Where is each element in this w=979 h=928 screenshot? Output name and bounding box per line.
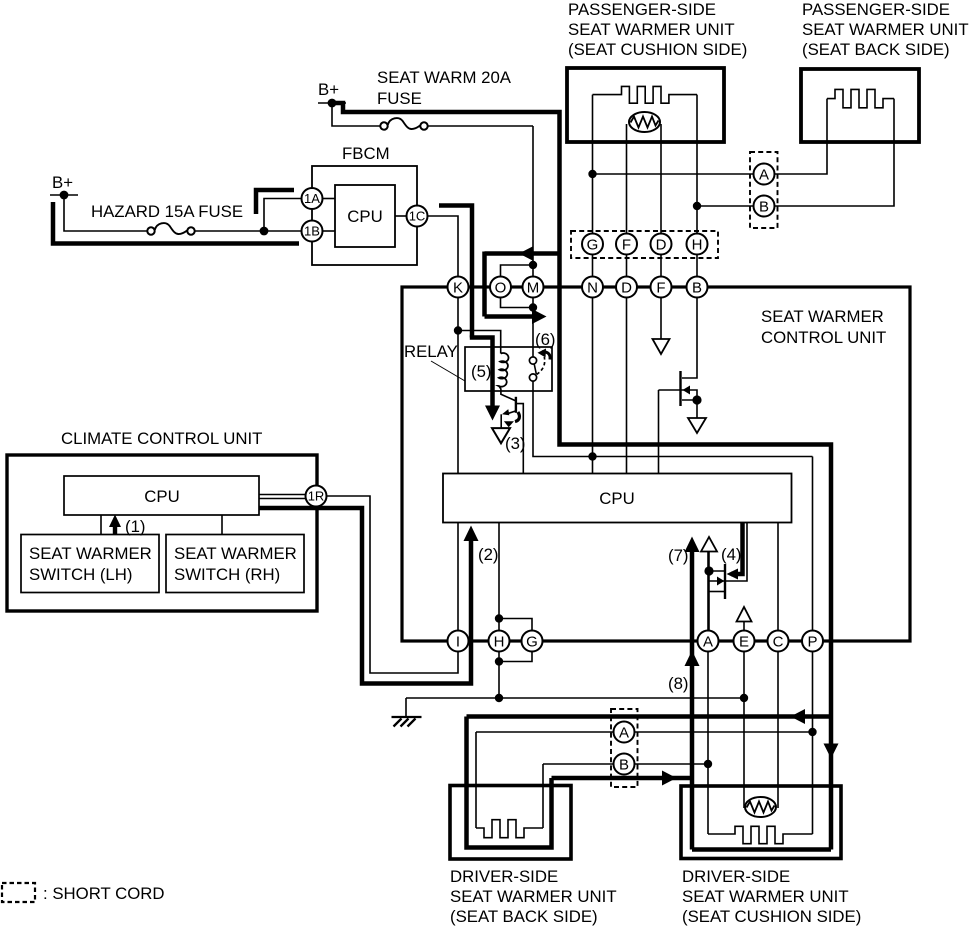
heater element driver cushion [708, 826, 813, 843]
svg-text:CLIMATE CONTROL UNIT: CLIMATE CONTROL UNIT [61, 429, 262, 448]
transistor Q2 stem below triangle [708, 552, 710, 631]
svg-text:: SHORT CORD: : SHORT CORD [43, 884, 165, 903]
svg-text:FUSE: FUSE [377, 89, 422, 108]
fuse HAZARD 15A [147, 227, 154, 234]
wire P column down to terminal P [812, 457, 814, 631]
svg-text:PASSENGER-SIDE: PASSENGER-SIDE [802, 0, 950, 19]
seat warmer switch LH box [21, 535, 159, 593]
arrow open triangle above terminal E [737, 607, 752, 622]
wire FBCM 1A lead [323, 198, 336, 200]
wire terminal D to CPU [626, 298, 628, 474]
thermistor passenger cushion [629, 112, 660, 132]
connector F [616, 234, 637, 255]
fuse SEAT WARM 20A [380, 122, 387, 129]
terminal I [448, 631, 469, 652]
wire thick relay loop top segment [485, 251, 558, 256]
svg-text:(2): (2) [478, 545, 499, 564]
svg-text:B: B [692, 280, 702, 297]
wire short cord A (bottom) left [476, 731, 614, 733]
svg-text:D: D [656, 237, 667, 254]
wire transistor Q2 drain branch [708, 570, 725, 572]
transistor Q3 emitter with arrow [507, 411, 516, 414]
wire thick relay coil drive jog [470, 338, 493, 408]
wire thick driver seat feed (7)/(8) [690, 551, 695, 850]
svg-text:1B: 1B [304, 224, 320, 239]
wire thick relay loop left segment [482, 252, 487, 317]
svg-text:(1): (1) [125, 517, 146, 536]
wire terminal H to ground [498, 652, 500, 699]
terminal K [448, 277, 469, 298]
svg-text:F: F [656, 280, 665, 297]
svg-text:SWITCH (LH): SWITCH (LH) [29, 565, 132, 584]
terminal 1C [407, 206, 428, 227]
svg-text:CONTROL UNIT: CONTROL UNIT [761, 328, 886, 347]
wire thermistor lead D column [660, 124, 662, 234]
svg-text:B+: B+ [52, 173, 73, 192]
svg-text:CPU: CPU [347, 207, 382, 226]
wire terminal H to CPU [498, 523, 500, 631]
arrowhead relay loop bottom (right) [532, 309, 547, 324]
terminal 1B [302, 221, 323, 242]
wire B+ to SEAT WARM fuse [332, 103, 380, 126]
wire short cord A to G column (passenger) [593, 173, 754, 175]
wire heater lead G column (passenger cushion) [592, 95, 594, 234]
node dot N relay output [588, 452, 596, 460]
wire node O top loop [501, 265, 534, 276]
svg-text:K: K [453, 280, 463, 297]
svg-text:(SEAT BACK SIDE): (SEAT BACK SIDE) [450, 907, 598, 926]
svg-text:(8): (8) [668, 674, 689, 693]
svg-text:G: G [587, 237, 599, 254]
svg-text:FBCM: FBCM [342, 144, 390, 163]
relay switch throw arc (dashed) [537, 357, 545, 375]
wire relay coil feed from K node [458, 331, 501, 354]
wire climate CPU to 1R (upper) [259, 494, 306, 496]
node dot H-G upper [495, 614, 503, 622]
wire connector G to terminal N [592, 255, 594, 277]
short cord B (passenger) [754, 196, 775, 217]
svg-text:I: I [456, 634, 460, 651]
wire terminal A to transistor Q2 [707, 552, 709, 631]
ground symbol chassis [392, 716, 422, 718]
node dot ground H [495, 694, 503, 702]
wire short cord B (bottom) left [543, 763, 614, 765]
svg-text:H: H [494, 634, 505, 651]
relay switch contact lower [529, 374, 536, 381]
node dot M column upper [529, 261, 537, 269]
terminal N [582, 277, 603, 298]
wire terminal C to CPU [777, 523, 779, 631]
svg-text:M: M [527, 280, 540, 297]
arrow open triangle above transistor Q2 [701, 537, 717, 552]
wire thick driver cushion inner loop bottom [692, 847, 831, 852]
wire connector F to terminal D [626, 255, 628, 277]
svg-text:SEAT WARM 20A: SEAT WARM 20A [377, 68, 512, 87]
wire M column: fuse down to relay contact [532, 126, 534, 357]
thermistor passenger cushion leads handled by columns [53, 103, 831, 850]
node dot H column short cord B [693, 202, 701, 210]
wire connector H to terminal B [696, 255, 698, 277]
transistor Q1 gate arrowhead [683, 386, 691, 395]
svg-text:1C: 1C [409, 209, 426, 224]
node dot hazard 1A/1B branch [260, 227, 269, 236]
arrowhead relay loop top (left) [519, 246, 534, 261]
arrowhead (1) climate switch [109, 515, 121, 528]
svg-text:A: A [619, 725, 629, 742]
terminal B (top row) [687, 277, 708, 298]
wire transistor Q1 gate column down [658, 390, 660, 474]
svg-text:B+: B+ [318, 80, 339, 99]
short cord connector box G F D H [571, 231, 718, 258]
wire B+ to HAZARD fuse [64, 195, 147, 231]
heater element passenger back [827, 89, 894, 107]
heater element passenger cushion [593, 86, 698, 103]
svg-text:B: B [759, 199, 769, 216]
battery B+ terminal (hazard fuse) [50, 194, 78, 196]
node dot K column coil branch [454, 326, 462, 334]
svg-text:(4): (4) [721, 545, 742, 564]
arrowhead (8) [685, 651, 700, 667]
passenger back seat warmer unit box [801, 69, 919, 142]
legend short cord box [2, 883, 35, 902]
transistor Q2 channel bar [724, 564, 726, 599]
short cord A (passenger) [754, 164, 775, 185]
wire branch to FBCM 1A [264, 199, 302, 232]
wire terminal N column to CPU [592, 298, 594, 474]
wire terminal I to 1R [327, 496, 459, 673]
wire connector D to terminal F [660, 255, 662, 277]
wire thick B+ seat warm feed (battery to fuse top) [334, 103, 831, 850]
svg-text:(7): (7) [668, 546, 689, 565]
wire thick driver back to cushion link [552, 776, 693, 781]
svg-text:DRIVER-SIDE: DRIVER-SIDE [682, 867, 790, 886]
wire thick driver back inner loop [467, 717, 552, 848]
wire short cord B to back heater [775, 99, 895, 206]
svg-text:C: C [773, 634, 784, 651]
climate CPU box [64, 476, 259, 515]
node dot B+ seat warm [328, 99, 337, 108]
arrowhead relay drive down [485, 406, 500, 421]
terminal M [523, 277, 544, 298]
svg-text:1A: 1A [304, 191, 320, 206]
wire transistor Q2 source branch [709, 591, 725, 593]
wire FBCM 1C lead [395, 215, 407, 217]
wire transistor Q2 gate from CPU [709, 523, 747, 582]
wire thick 1C relay feed [439, 206, 472, 338]
wire driver back heater lead A [475, 732, 477, 828]
terminal O [490, 277, 511, 298]
arrow open triangle below terminal F [653, 339, 670, 354]
terminal D (top row) [616, 277, 637, 298]
svg-text:SWITCH (RH): SWITCH (RH) [174, 565, 280, 584]
wire thick relay loop bottom segment [485, 314, 539, 319]
svg-text:H: H [692, 237, 703, 254]
relay switch actuation curved arrow (6) [542, 352, 550, 360]
terminal G (bottom row) [522, 631, 543, 652]
transistor Q3 emitter to ground [500, 414, 502, 427]
wire thermistor lead F column [626, 124, 628, 234]
wire node O bottom loop [501, 298, 534, 308]
wire seat warmer switch RH lead [221, 515, 223, 535]
svg-text:(SEAT CUSHION SIDE): (SEAT CUSHION SIDE) [568, 40, 747, 59]
wire short cord B to H column (passenger) [697, 205, 754, 207]
wire terminal K down to CPU [457, 298, 459, 474]
short cord A (driver) [614, 722, 635, 743]
svg-text:F: F [622, 237, 631, 254]
svg-text:SEAT WARMER UNIT: SEAT WARMER UNIT [568, 20, 735, 39]
svg-text:E: E [739, 634, 749, 651]
svg-text:DRIVER-SIDE: DRIVER-SIDE [450, 867, 558, 886]
wire transistor Q1 gate to CPU [659, 390, 698, 400]
svg-text:A: A [759, 167, 769, 184]
terminal C [768, 631, 789, 652]
svg-text:RELAY: RELAY [404, 342, 458, 361]
transistor Q1 ground open triangle [688, 418, 706, 433]
svg-text:SEAT WARMER UNIT: SEAT WARMER UNIT [802, 20, 969, 39]
FBCM CPU box [335, 185, 395, 247]
relay coil exit to transistor [499, 386, 516, 401]
wire H-G upper loop [499, 619, 532, 631]
node dot transistor Q2 drain [704, 566, 713, 575]
connector H [687, 234, 708, 255]
wire relay switch output to N and P [533, 381, 813, 457]
arrowhead return bus (left) [791, 709, 806, 724]
wire thick hazard B+ stub [53, 202, 299, 244]
arrowhead (2) [464, 526, 479, 542]
arrowhead feed down at x=831 [824, 744, 839, 759]
svg-text:PASSENGER-SIDE: PASSENGER-SIDE [568, 0, 716, 19]
wire ground bus [406, 697, 744, 699]
wire H-G lower loop [499, 652, 532, 662]
wire terminal E to arrow above [743, 622, 745, 632]
wire heater lead H column (passenger cushion) [696, 95, 698, 234]
node dot H-G lower [495, 657, 503, 665]
wire fuse to node M column [429, 125, 534, 127]
wire ground drop [405, 698, 407, 717]
svg-text:HAZARD 15A FUSE: HAZARD 15A FUSE [91, 202, 243, 221]
wire 1C to terminal K [428, 216, 459, 277]
node dot transistor Q1 source [692, 395, 701, 404]
wire fuse to FBCM 1B [196, 230, 302, 232]
ground arrow (3) open triangle [492, 428, 510, 443]
wire climate CPU to 1R (lower) [259, 498, 306, 500]
arrowhead (7) [685, 537, 700, 553]
short cord connector box A B (driver) [611, 709, 638, 787]
terminal 1A [302, 188, 323, 209]
wire driver back heater lead B [542, 764, 544, 828]
terminal E [734, 631, 755, 652]
svg-text:SEAT WARMER UNIT: SEAT WARMER UNIT [682, 887, 849, 906]
curved arrow (3) [515, 412, 519, 422]
svg-text:SEAT WARMER: SEAT WARMER [29, 544, 152, 563]
terminal 1R [306, 486, 327, 507]
short cord connector box A B (passenger) [750, 152, 778, 228]
seat warmer control unit box [402, 287, 910, 641]
seat warmer switch RH box [166, 535, 304, 593]
relay switch contact upper (6) [529, 357, 536, 364]
svg-text:A: A [703, 634, 713, 651]
relay switch blade [534, 364, 536, 374]
svg-text:SEAT WARMER UNIT: SEAT WARMER UNIT [450, 887, 617, 906]
control unit CPU box [443, 474, 792, 523]
passenger cushion seat warmer unit box [567, 68, 724, 142]
svg-text:1R: 1R [308, 489, 325, 504]
climate control unit box [7, 455, 317, 611]
connector D [651, 234, 672, 255]
node dot G column short cord A [588, 170, 596, 178]
wire transistor Q1 source [682, 400, 697, 418]
terminal H (bottom row) [489, 631, 510, 652]
node dot B+ hazard [60, 191, 69, 200]
transistor Q2 gate arrowhead [717, 577, 724, 586]
heater element driver back side [476, 820, 543, 838]
svg-text:SEAT WARMER: SEAT WARMER [174, 544, 297, 563]
svg-text:CPU: CPU [144, 487, 179, 506]
wire thick driver back return bus [467, 714, 832, 719]
thermistor driver cushion [745, 797, 776, 817]
node dot P column short cord A [808, 728, 816, 736]
wire short cord A to back heater [775, 99, 828, 174]
wire thick transistor Q2 drain feed [731, 523, 743, 575]
terminal A (bottom row) [698, 631, 719, 652]
svg-text:(6): (6) [535, 330, 556, 349]
relay coil (5) [498, 353, 508, 387]
wire terminal B to transistor drain [682, 298, 697, 379]
wire P column to driver cushion heater [812, 652, 814, 835]
wire short cord B (bottom) right [635, 763, 709, 765]
FBCM box [312, 166, 417, 265]
wire terminal A down to driver cushion heater [707, 652, 709, 835]
battery B+ terminal (seat warm fuse) [318, 102, 346, 104]
node dot ground E [740, 694, 748, 702]
arrowhead transistor Q2 drain (left) [727, 569, 739, 580]
terminal P [802, 631, 823, 652]
svg-text:(SEAT BACK SIDE): (SEAT BACK SIDE) [802, 40, 950, 59]
svg-text:N: N [587, 280, 598, 297]
node dot A column short cord B [704, 760, 712, 768]
transistor Q1 channel bar [679, 371, 681, 406]
wire terminal F to arrow [660, 298, 662, 340]
short cord B (driver) [614, 754, 635, 775]
connector G [582, 234, 603, 255]
transistor Q3 collector [516, 404, 523, 474]
wire FBCM 1B lead [323, 230, 336, 232]
wire seat warmer switch LH lead [100, 515, 102, 535]
svg-text:B: B [619, 757, 629, 774]
arrowhead back-to-cushion link (right) [662, 771, 677, 786]
wire thick climate CPU output [259, 508, 471, 684]
node dot M column lower [529, 303, 537, 311]
svg-text:G: G [526, 634, 538, 651]
wire thick stub at FBCM 1A [256, 190, 294, 214]
wire terminal I to CPU [457, 523, 459, 631]
driver back seat warmer unit box [450, 786, 571, 860]
svg-text:(SEAT CUSHION SIDE): (SEAT CUSHION SIDE) [682, 907, 861, 926]
svg-text:O: O [495, 280, 507, 297]
wire terminal E to ground bus and thermistor [743, 652, 745, 809]
svg-text:D: D [621, 280, 632, 297]
transistor Q3 base bar [515, 397, 517, 413]
svg-text:CPU: CPU [599, 489, 634, 508]
svg-text:P: P [807, 634, 817, 651]
wire short cord A (bottom) right to P column [635, 731, 813, 733]
wire terminal C to thermistor [777, 652, 779, 809]
driver cushion seat warmer unit box [681, 786, 841, 859]
relay box [465, 347, 552, 391]
svg-text:SEAT WARMER: SEAT WARMER [761, 307, 884, 326]
svg-text:(3): (3) [505, 434, 526, 453]
svg-text:(5): (5) [471, 362, 492, 381]
callout line RELAY [431, 361, 465, 381]
terminal F (top row) [651, 277, 672, 298]
